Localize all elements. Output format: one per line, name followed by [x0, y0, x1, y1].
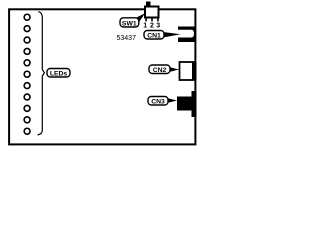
LED 1	[24, 14, 30, 20]
svg-text:CN3: CN3	[151, 98, 165, 105]
LED 11	[24, 128, 30, 134]
pin numbers 1 2 3	[143, 23, 160, 30]
LED 6	[24, 71, 30, 77]
switch SW1 pins	[145, 18, 159, 21]
board outline	[9, 9, 195, 144]
svg-text:LEDs: LEDs	[50, 70, 68, 77]
svg-text:SW1: SW1	[122, 20, 137, 27]
LED 7	[24, 83, 30, 89]
connector CN3	[177, 91, 197, 117]
LED 10	[24, 117, 30, 123]
label CN2	[149, 65, 179, 74]
label CN3	[148, 97, 177, 106]
LED 8	[24, 94, 30, 100]
svg-text:1: 1	[143, 23, 147, 30]
label LEDs	[47, 69, 70, 78]
svg-text:2: 2	[150, 23, 154, 30]
switch SW1 body	[145, 2, 159, 18]
connector CN1	[178, 27, 196, 43]
svg-text:3: 3	[156, 23, 160, 30]
LED 2	[24, 26, 30, 32]
label CN1	[144, 31, 181, 40]
brace grouping LEDs	[38, 12, 45, 135]
svg-text:CN1: CN1	[147, 32, 161, 39]
label SW1	[120, 13, 145, 27]
LED 9	[24, 105, 30, 111]
svg-text:CN2: CN2	[153, 67, 167, 74]
LED 5	[24, 60, 30, 66]
connector CN2	[180, 62, 197, 80]
svg-text:53437: 53437	[117, 35, 137, 42]
LED 4	[24, 48, 30, 54]
LED 3	[24, 37, 30, 43]
